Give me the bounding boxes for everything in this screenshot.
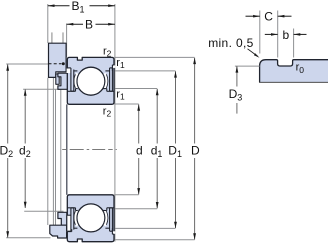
- dimension line D2 vertical: [7, 64, 9, 237]
- d2 bottom extension: [24, 210, 63, 212]
- d1 bottom extension: [114, 208, 157, 210]
- svg-text:b: b: [283, 28, 290, 42]
- centerline (axis): [62, 149, 117, 151]
- bearing right face line / B,B1 right extension: [114, 4, 116, 242]
- top left face white notch: [67, 69, 71, 74]
- svg-text:min. 0,5: min. 0,5: [208, 36, 254, 50]
- leader dot: [62, 62, 65, 65]
- sleeve step face line: [52, 78, 54, 225]
- bottom bearing half-section body: [67, 195, 114, 242]
- extension lines C / b: [260, 11, 294, 58]
- dimension line d2 vertical: [24, 89, 26, 208]
- dimension B1: [48, 5, 115, 7]
- impulse ring bottom (mirrored): [58, 212, 67, 225]
- bottom cage arcs: [74, 211, 75, 225]
- detail bottom break edge: [259, 81, 328, 83]
- extension line B1 left (sleeve OD plane, upper): [47, 4, 49, 43]
- dimension line d1 vertical: [156, 89, 158, 208]
- bottom internal edges: [67, 208, 114, 234]
- D2 top extension: [6, 63, 48, 65]
- D1 top extension: [114, 70, 175, 72]
- dimension line D vertical: [194, 58, 196, 240]
- sensor body inner step strip: [56, 74, 59, 84]
- d bottom extension: [114, 194, 139, 196]
- svg-text:D: D: [191, 143, 200, 157]
- impulse ring top (C-channel): [58, 73, 70, 89]
- D2 bottom extension: [6, 237, 50, 239]
- d1 top extension: [114, 88, 157, 90]
- dimension line d vertical: [138, 104, 140, 194]
- top ball: [77, 67, 105, 95]
- top ball white crescents (gap each side): [75, 73, 77, 89]
- bottom outer ring left step white cut: [67, 229, 72, 231]
- dimension b: [265, 33, 278, 35]
- top right face notch: [113, 65, 116, 68]
- bottom left face white notch: [67, 215, 71, 231]
- cable lead lines on sensor body: [51, 32, 53, 43]
- extension line B left (bearing face): [66, 24, 68, 58]
- arrows of vertical diameter dimension lines: [6, 58, 196, 240]
- svg-text:C: C: [264, 10, 273, 24]
- bottom ball white crescents: [75, 210, 77, 226]
- d2 top extension: [23, 88, 60, 90]
- D top extension: [114, 56, 194, 58]
- inner ring left face silhouette line: [66, 104, 68, 194]
- impulse ring face line: [60, 89, 62, 212]
- svg-text:d: d: [136, 143, 143, 157]
- dimension line D1 vertical: [175, 71, 177, 228]
- sensor body bore face line: [55, 89, 57, 225]
- d top extension: [114, 103, 139, 105]
- top cage arcs: [74, 74, 75, 88]
- top bearing half-section body (outer ring + inner ring + seals, with OD snap-ring notch): [67, 57, 114, 104]
- sleeve OD face silhouette line (between halves): [47, 78, 49, 225]
- dashed leader to sleeve OD (D2): [49, 63, 62, 65]
- detail body: [260, 60, 328, 83]
- sensor body (sleeve) top: [49, 43, 67, 77]
- dimension B: [67, 23, 115, 25]
- top internal edges: [67, 65, 114, 91]
- sensor body bottom ring: [50, 225, 67, 238]
- dimension D3: [235, 65, 260, 67]
- D bottom extension: [114, 239, 194, 241]
- svg-text:B: B: [85, 18, 93, 32]
- D1 bottom extension: [114, 227, 175, 229]
- bottom right face notch: [113, 231, 116, 234]
- bottom ball: [77, 204, 105, 232]
- dimension C: [246, 15, 260, 17]
